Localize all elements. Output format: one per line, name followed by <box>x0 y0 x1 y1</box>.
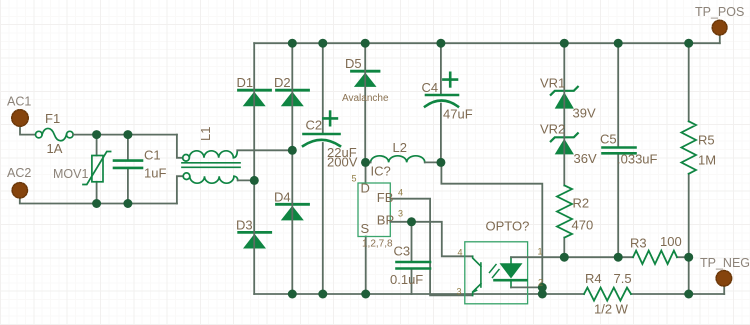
svg-text:1uF: 1uF <box>144 165 166 180</box>
varistor MOV1 vertical wire <box>96 135 98 204</box>
wire bottom bus right of R4 <box>631 293 724 295</box>
resistor R3 symbol <box>633 251 677 264</box>
junction dot L2 C4 node <box>436 158 445 167</box>
wire IC source stub <box>365 237 367 295</box>
wire R5 vertical <box>688 43 690 294</box>
svg-text:D1: D1 <box>237 75 254 90</box>
svg-text:D: D <box>361 181 370 196</box>
diode D5 symbol <box>352 71 380 87</box>
terminal AC1 <box>12 110 29 127</box>
fuse F1 symbol <box>36 128 74 140</box>
junction dot R3 R5 <box>684 253 693 262</box>
wire bottom bus left of R4 <box>254 293 584 295</box>
svg-text:C4: C4 <box>422 80 439 95</box>
svg-text:R5: R5 <box>698 133 715 148</box>
svg-text:D4: D4 <box>274 190 291 205</box>
transformer L1 core bars <box>182 163 240 168</box>
svg-text:4: 4 <box>398 188 403 198</box>
wire BP to opto pin4 <box>390 222 472 256</box>
svg-text:TP_POS: TP_POS <box>695 5 744 19</box>
svg-text:F1: F1 <box>45 111 60 126</box>
zener VR2 symbol <box>551 133 578 154</box>
wire R3 right to R5 node <box>677 256 689 258</box>
svg-text:BP: BP <box>377 213 394 228</box>
wire output node to opto pin2 <box>441 162 542 294</box>
inductor L2 symbol <box>371 156 425 163</box>
wire fuse to transformer <box>73 134 177 136</box>
svg-text:C2: C2 <box>306 118 323 133</box>
svg-text:4: 4 <box>458 247 463 257</box>
terminal AC2 <box>12 183 27 198</box>
wire L2 leads <box>365 161 441 163</box>
capacitor C1 symbol <box>114 161 142 168</box>
svg-text:C5: C5 <box>600 131 617 146</box>
IC U1 box <box>358 183 390 237</box>
zener VR1 symbol <box>551 87 578 109</box>
svg-text:3: 3 <box>398 209 403 219</box>
junction dot top bus C2 <box>318 39 327 48</box>
junction dot bottom bus R5 <box>684 290 693 299</box>
capacitor C5 wires <box>617 43 619 257</box>
svg-text:AC2: AC2 <box>7 166 31 180</box>
resistor R2 symbol <box>557 186 572 238</box>
diode D3 symbol <box>239 232 271 248</box>
svg-text:R2: R2 <box>573 196 590 211</box>
svg-text:5: 5 <box>352 174 357 184</box>
capacitor C2 symbol <box>303 134 340 146</box>
junction dot D5 L2 IC <box>361 158 370 167</box>
opto emitter arrow <box>473 288 478 293</box>
junction dot BP C3 <box>407 217 416 226</box>
capacitor C2 wires <box>322 43 324 294</box>
svg-text:L2: L2 <box>393 140 407 155</box>
capacitor C5 symbol <box>603 148 636 154</box>
wire FB to opto pin3 <box>390 199 472 296</box>
svg-text:100: 100 <box>660 234 682 249</box>
svg-text:1,2,7,8: 1,2,7,8 <box>362 238 393 249</box>
wire opto pin2 <box>511 286 542 288</box>
svg-text:TP_NEG: TP_NEG <box>700 256 750 270</box>
svg-text:.033uF: .033uF <box>617 151 658 166</box>
opto phototransistor <box>473 256 481 295</box>
svg-text:AC1: AC1 <box>7 95 31 109</box>
junction dot winding-D1 <box>250 176 259 185</box>
junction dot top bus C4 <box>436 39 445 48</box>
diode D1 symbol <box>239 90 271 106</box>
svg-text:1M: 1M <box>698 153 716 168</box>
capacitor C3 wires <box>411 222 413 294</box>
terminal TP_NEG <box>716 271 732 287</box>
wire top winding to D2 line <box>237 149 292 151</box>
wire top bus <box>254 42 720 44</box>
opto LED symbol <box>495 257 527 287</box>
junction dot top bus VR1 <box>560 39 569 48</box>
wire AC1 to fuse <box>20 127 35 135</box>
diode D2 symbol <box>277 90 309 106</box>
wire to top winding <box>177 135 183 158</box>
svg-text:IC?: IC? <box>371 164 391 179</box>
junction dot bottom bus C2 <box>318 290 327 299</box>
junction dot winding-D2 <box>288 146 297 155</box>
terminal TP_POS <box>712 20 727 35</box>
junction dot top bus D5 <box>361 39 370 48</box>
capacitor C1 wires <box>127 135 129 204</box>
svg-text:FB: FB <box>377 190 394 205</box>
svg-text:39V: 39V <box>573 106 596 121</box>
svg-text:1: 1 <box>538 246 543 256</box>
junction dot fuse-MOV node <box>92 130 101 139</box>
svg-text:3: 3 <box>457 286 462 296</box>
svg-text:C1: C1 <box>144 148 161 163</box>
junction dot C1 bottom <box>123 199 132 208</box>
junction dot top bus C5 <box>614 39 623 48</box>
svg-text:D5: D5 <box>345 56 362 71</box>
transformer L1 bottom winding <box>183 173 238 183</box>
svg-text:MOV1: MOV1 <box>53 167 88 181</box>
junction dot R2 bottom <box>560 253 569 262</box>
svg-text:1A: 1A <box>47 141 63 156</box>
wire TP_POS stub <box>719 35 721 44</box>
svg-text:7.5: 7.5 <box>614 271 632 286</box>
wire IC drain stub <box>365 162 367 183</box>
junction dot bottom bus opto <box>538 290 547 299</box>
svg-text:470: 470 <box>572 218 594 233</box>
svg-text:C3: C3 <box>394 244 411 259</box>
svg-text:S: S <box>361 221 370 236</box>
svg-text:R4: R4 <box>585 271 602 286</box>
junction dot top bus D2 <box>288 39 297 48</box>
capacitor C4 symbol <box>425 95 458 107</box>
junction dot C5 bottom <box>614 253 623 262</box>
svg-text:0.1uF: 0.1uF <box>390 272 423 287</box>
resistor R5 symbol <box>681 121 696 174</box>
wire to bottom winding <box>177 176 183 203</box>
svg-text:D2: D2 <box>274 75 291 90</box>
wire D1 D3 vertical <box>253 43 255 294</box>
resistor R4 symbol <box>584 288 631 301</box>
diode D4 symbol <box>277 204 309 220</box>
wire bottom winding to D1 line <box>238 179 255 181</box>
junction dot C1 top <box>123 130 132 139</box>
junction dot opto pin2 node <box>538 283 547 292</box>
svg-text:L1: L1 <box>198 127 213 141</box>
opto U2 box <box>465 242 528 304</box>
capacitor C4 wires <box>440 43 442 162</box>
svg-text:1/2 W: 1/2 W <box>594 302 629 317</box>
transformer L1 top winding <box>183 150 238 161</box>
varistor MOV1 symbol <box>83 152 111 185</box>
svg-text:2: 2 <box>538 277 543 287</box>
wire TP_NEG stub <box>723 286 725 294</box>
svg-text:R3: R3 <box>630 235 647 250</box>
svg-text:47uF: 47uF <box>443 107 473 122</box>
wire AC2 to bottom rail <box>20 198 177 204</box>
wire VR1 VR2 R2 vertical <box>563 43 565 257</box>
opto light arrows <box>490 265 500 278</box>
svg-text:VR2: VR2 <box>540 122 565 137</box>
svg-text:OPTO?: OPTO? <box>486 219 530 234</box>
wire opto pin1 row <box>511 256 633 258</box>
capacitor C4 plus sign <box>443 73 457 87</box>
junction dot MOV bottom <box>92 199 101 208</box>
svg-text:VR1: VR1 <box>540 76 565 91</box>
svg-text:Avalanche: Avalanche <box>342 93 389 104</box>
junction dot bottom bus D4 <box>288 290 297 299</box>
wire D5 vertical <box>364 43 366 162</box>
svg-text:D3: D3 <box>236 218 253 233</box>
junction dot bottom bus IC source <box>361 290 370 299</box>
wire D2 D4 vertical <box>291 43 293 294</box>
svg-text:36V: 36V <box>574 151 597 166</box>
junction dot top bus R5 <box>684 39 693 48</box>
svg-text:200V: 200V <box>327 155 358 170</box>
capacitor C3 symbol <box>397 262 431 269</box>
capacitor C2 plus sign <box>323 112 337 126</box>
